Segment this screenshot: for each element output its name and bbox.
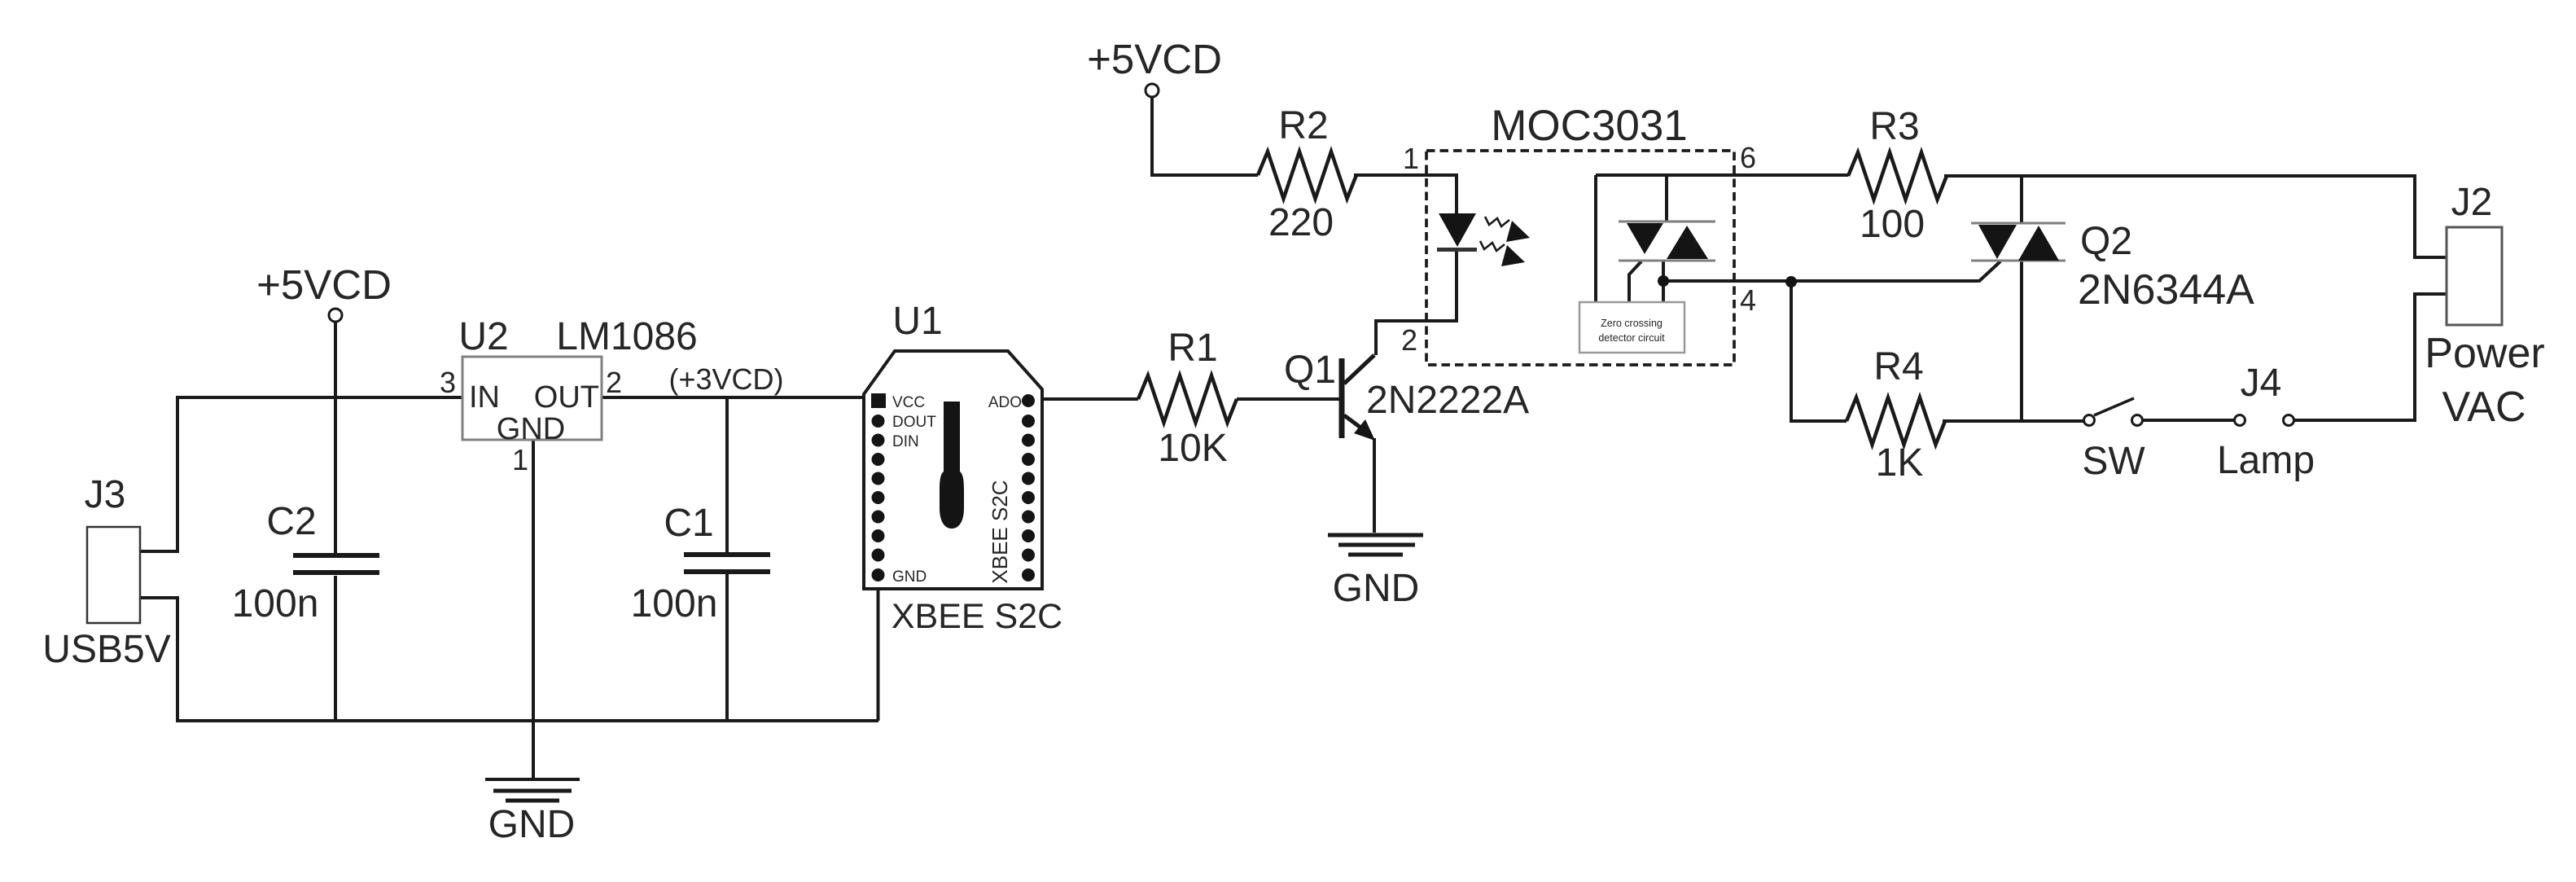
svg-text:1: 1 [1403,142,1419,175]
svg-text:GND: GND [497,412,565,446]
svg-text:R4: R4 [1873,345,1923,388]
svg-text:6: 6 [1740,141,1756,174]
svg-text:C2: C2 [266,500,316,543]
svg-text:220: 220 [1268,201,1334,244]
svg-text:Q1: Q1 [1284,349,1336,392]
svg-text:2N6344A: 2N6344A [2078,266,2254,314]
svg-text:Q2: Q2 [2080,220,2132,263]
svg-text:3: 3 [440,366,456,399]
svg-text:2: 2 [1401,323,1417,357]
svg-text:10K: 10K [1158,427,1227,470]
svg-text:2N2222A: 2N2222A [1366,379,1529,422]
svg-text:LM1086: LM1086 [556,315,697,358]
svg-text:C1: C1 [664,502,713,545]
svg-text:Power: Power [2425,330,2544,377]
svg-text:4: 4 [1740,283,1756,317]
svg-text:GND: GND [1333,567,1420,610]
svg-text:USB5V: USB5V [42,628,170,671]
svg-text:DOUT: DOUT [892,414,936,431]
svg-text:XBEE S2C: XBEE S2C [988,480,1012,583]
svg-text:1: 1 [512,443,528,476]
svg-text:1K: 1K [1876,441,1924,485]
svg-text:IN: IN [469,380,500,415]
svg-text:U2: U2 [458,315,508,358]
svg-text:(+3VCD): (+3VCD) [668,362,783,396]
svg-text:GND: GND [892,568,927,586]
svg-text:2: 2 [606,366,622,399]
svg-text:R1: R1 [1168,327,1217,370]
svg-text:R3: R3 [1869,105,1919,148]
svg-text:R2: R2 [1278,104,1328,147]
svg-text:100n: 100n [631,582,718,625]
svg-text:J2: J2 [2451,181,2493,224]
svg-text:J3: J3 [85,473,126,516]
svg-text:OUT: OUT [534,380,599,415]
svg-text:detector circuit: detector circuit [1598,332,1665,344]
svg-text:100: 100 [1860,203,1925,246]
svg-text:DIN: DIN [892,433,919,450]
svg-text:ADO: ADO [988,394,1022,411]
svg-text:+5VCD: +5VCD [1087,36,1222,82]
svg-text:VCC: VCC [892,394,925,411]
svg-text:+5VCD: +5VCD [256,261,392,308]
svg-text:XBEE S2C: XBEE S2C [892,597,1062,636]
svg-text:Lamp: Lamp [2217,439,2315,482]
svg-text:VAC: VAC [2442,384,2526,431]
svg-text:J4: J4 [2241,362,2282,405]
svg-text:SW: SW [2082,440,2145,483]
svg-text:GND: GND [488,803,576,846]
svg-text:U1: U1 [892,300,942,343]
svg-text:100n: 100n [232,582,319,625]
svg-text:Zero crossing: Zero crossing [1601,318,1663,329]
svg-text:MOC3031: MOC3031 [1491,102,1688,150]
